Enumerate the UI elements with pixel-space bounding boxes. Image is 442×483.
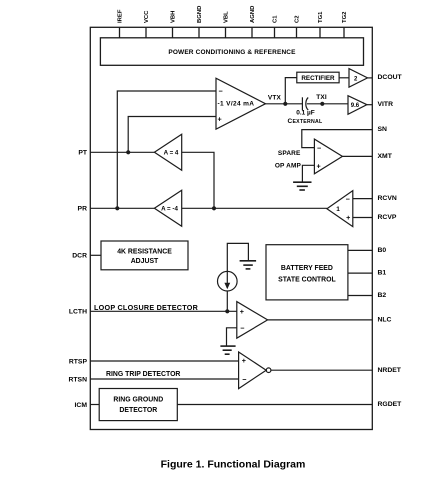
pin tick TG2	[343, 27, 345, 38]
rectifier block	[297, 72, 339, 83]
wire DCR	[90, 254, 101, 256]
svg-text:1: 1	[336, 206, 340, 213]
svg-text:RTSN: RTSN	[68, 376, 87, 383]
wire VTX to rectifier	[285, 78, 297, 104]
wire RCVN	[353, 198, 373, 200]
wire DCOUT	[368, 77, 373, 79]
wire loop comparator minus to ground	[227, 328, 237, 346]
svg-text:A = -4: A = -4	[161, 206, 178, 213]
right pin labels	[378, 74, 403, 408]
svg-text:B0: B0	[378, 247, 387, 254]
svg-text:RGDET: RGDET	[378, 401, 403, 408]
wire B1	[348, 272, 372, 274]
svg-text:LCTH: LCTH	[69, 309, 87, 316]
wire RTSP	[90, 360, 238, 362]
svg-text:DCR: DCR	[72, 253, 87, 260]
capacitor CEXTERNAL plate 2 curved	[306, 98, 308, 111]
amplifier A=-4	[154, 190, 181, 226]
svg-text:4K RESISTANCE: 4K RESISTANCE	[117, 248, 172, 255]
svg-text:+: +	[346, 213, 350, 222]
node VTX	[283, 102, 287, 106]
ground loop comparator	[220, 345, 235, 347]
node junction LCTH/current source	[225, 309, 229, 313]
svg-text:RTSP: RTSP	[69, 358, 88, 365]
svg-text:AGND: AGND	[250, 6, 256, 23]
svg-text:ADJUST: ADJUST	[131, 258, 159, 265]
wire SN to spare op amp inverting input	[302, 130, 373, 148]
svg-text:+: +	[242, 356, 246, 365]
svg-text:NLC: NLC	[378, 317, 392, 324]
pin tick AGND	[251, 27, 253, 38]
svg-text:VCC: VCC	[144, 10, 150, 23]
svg-text:DETECTOR: DETECTOR	[119, 407, 157, 414]
wire plus input from node at x128	[128, 117, 216, 153]
svg-text:−: −	[219, 87, 223, 96]
chip outline border	[90, 27, 372, 429]
svg-text:RECTIFIER: RECTIFIER	[301, 75, 335, 82]
svg-text:PR: PR	[78, 206, 88, 213]
svg-text:0.1 µF: 0.1 µF	[296, 110, 315, 117]
wire RCVP	[353, 217, 373, 219]
wire/node name labels	[94, 75, 336, 414]
wire XMT	[342, 155, 372, 157]
current source I1	[218, 271, 238, 291]
ring ground detector block	[99, 389, 177, 421]
svg-text:TXI: TXI	[316, 94, 327, 101]
svg-text:−: −	[240, 324, 244, 333]
top pin labels rotated	[118, 6, 349, 23]
wire PR	[90, 207, 154, 209]
svg-text:VITR: VITR	[378, 101, 394, 108]
node TXI	[320, 102, 324, 106]
node junction PR/minus	[115, 206, 119, 210]
svg-text:IREF: IREF	[118, 9, 124, 23]
arrow of current source	[224, 283, 230, 290]
ground current source	[240, 260, 257, 262]
svg-text:+: +	[240, 307, 244, 316]
battery feed state control block	[266, 245, 348, 300]
wire RTSN	[90, 378, 238, 380]
svg-text:PT: PT	[78, 150, 88, 157]
svg-text:+: +	[218, 114, 222, 123]
wire minus input from node at x117	[117, 91, 216, 208]
svg-text:SPARE: SPARE	[278, 150, 301, 157]
pin tick VBL	[225, 27, 227, 38]
wire VTX output	[266, 103, 303, 105]
wire current source to LCTH node	[226, 291, 228, 311]
wire NRDET	[271, 369, 372, 371]
wire plus input to ground	[302, 165, 314, 182]
svg-text:VBL: VBL	[224, 11, 230, 23]
svg-text:BATTERY FEED: BATTERY FEED	[281, 265, 333, 272]
comparator U4 loop closure	[237, 302, 268, 339]
svg-text:2: 2	[354, 76, 358, 82]
svg-text:TG2: TG2	[342, 11, 348, 23]
op-amp U2 spare	[314, 139, 342, 174]
svg-text:POWER CONDITIONING & REFERENCE: POWER CONDITIONING & REFERENCE	[168, 49, 296, 56]
svg-text:-1 V/24 mA: -1 V/24 mA	[218, 100, 255, 107]
wire A=-4 input / receive path	[182, 207, 327, 209]
svg-text:XMT: XMT	[378, 153, 393, 160]
svg-text:−: −	[346, 194, 350, 203]
pin tick IREF	[119, 27, 121, 38]
comparator U5 ring trip	[239, 352, 267, 389]
svg-text:RING TRIP DETECTOR: RING TRIP DETECTOR	[106, 371, 180, 378]
svg-text:C2: C2	[295, 15, 301, 23]
svg-text:RCVN: RCVN	[378, 195, 397, 202]
svg-text:−: −	[317, 144, 321, 153]
amplifier A=4	[154, 134, 181, 170]
output bubble ring trip	[266, 368, 271, 373]
svg-text:VBH: VBH	[171, 11, 177, 23]
amp internal labels	[161, 76, 360, 384]
wire B0	[348, 249, 372, 251]
wire LCTH	[90, 310, 237, 312]
buffer amp VITR gain 9.6	[348, 96, 367, 115]
power conditioning block U-PWR	[100, 38, 363, 66]
wire current source top to ground	[227, 243, 248, 271]
svg-text:ICM: ICM	[75, 402, 88, 409]
svg-text:B2: B2	[378, 292, 387, 299]
svg-text:NRDET: NRDET	[378, 367, 402, 374]
svg-text:BGND: BGND	[197, 6, 203, 23]
op-amp U3 receive gain 1	[327, 191, 353, 227]
svg-text:B1: B1	[378, 270, 387, 277]
svg-text:LOOP CLOSURE DETECTOR: LOOP CLOSURE DETECTOR	[94, 303, 199, 312]
4K resistance adjust block	[101, 241, 188, 270]
node junction receive/PR drive	[212, 206, 216, 210]
svg-text:SN: SN	[378, 126, 388, 133]
svg-text:RCVP: RCVP	[378, 214, 397, 221]
pin tick VBH	[172, 27, 174, 38]
wire NLC	[268, 319, 373, 321]
buffer amp DCOUT gain 2	[349, 69, 368, 88]
wire A=4 input to PR node	[182, 152, 214, 208]
svg-text:C1: C1	[273, 15, 279, 23]
pin tick TG1	[319, 27, 321, 38]
wire PT	[90, 151, 154, 153]
svg-text:A = 4: A = 4	[164, 150, 179, 157]
svg-text:STATE CONTROL: STATE CONTROL	[278, 276, 336, 283]
svg-text:CEXTERNAL: CEXTERNAL	[288, 118, 323, 125]
wire VITR	[367, 104, 372, 106]
wire RGDET	[177, 404, 372, 406]
svg-text:RING GROUND: RING GROUND	[113, 396, 163, 403]
svg-text:TG1: TG1	[318, 11, 324, 23]
node junction PT/plus	[126, 150, 130, 154]
svg-text:+: +	[317, 161, 321, 170]
ground spare op amp	[293, 181, 311, 183]
pin tick VCC	[145, 27, 147, 38]
pin tick BGND	[198, 27, 200, 38]
wire cap to VITR buffer	[307, 103, 348, 105]
wire B2	[348, 295, 372, 297]
left pin labels	[68, 150, 87, 409]
svg-text:9.6: 9.6	[351, 103, 360, 109]
svg-text:−: −	[242, 375, 246, 384]
op-amp U1 tip/ring sense (VTX)	[216, 78, 266, 129]
wire rectifier to buffer	[339, 77, 349, 79]
pin tick C2	[296, 27, 298, 38]
svg-text:DCOUT: DCOUT	[378, 74, 403, 81]
svg-text:OP AMP: OP AMP	[275, 162, 302, 169]
svg-text:VTX: VTX	[268, 94, 282, 101]
svg-text:Figure 1. Functional Diagram: Figure 1. Functional Diagram	[161, 459, 306, 471]
capacitor CEXTERNAL plate 1	[301, 97, 303, 110]
wire ICM	[90, 404, 99, 406]
pin tick C1	[274, 27, 276, 38]
